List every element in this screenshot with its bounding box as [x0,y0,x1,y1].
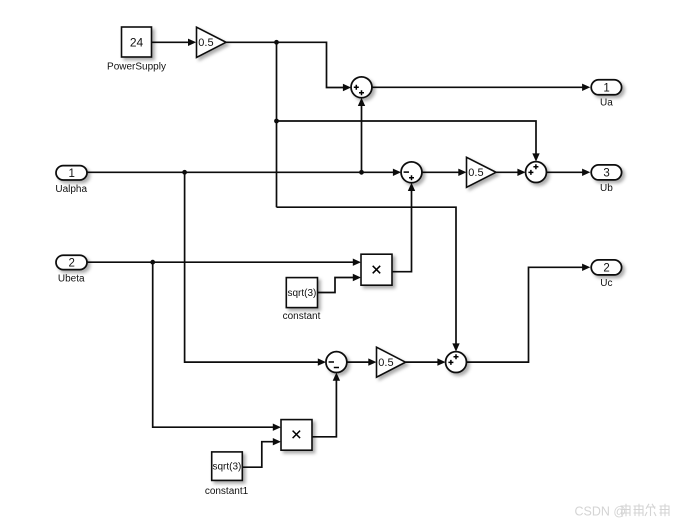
sum block Sum2 [401,162,422,183]
Sum5 minus bottom [334,367,339,369]
junction dot Ualpha x184 [182,170,187,175]
svg-text:Ualpha: Ualpha [55,184,87,195]
constant block PowerSupply [122,27,152,57]
svg-text:sqrt(3): sqrt(3) [212,462,241,473]
Product2 cross symbol [293,431,301,439]
gain block Gain2 0.5 [467,157,497,187]
svg-text:2: 2 [603,263,609,275]
wire Vdc branch to Sum3 top [277,121,537,154]
gain block Gain3 0.5 [377,347,406,377]
constant block sqrt(3) constant1 [212,452,243,481]
gain block Gain1 0.5 [197,27,227,57]
arrowhead into Gain1 [188,39,196,46]
junction dot Ualpha x361 [359,170,364,175]
arrowhead into Sum1 bottom [358,98,365,106]
wire constant1 sqrt(3) to Product2 input 2 [241,442,273,468]
arrowhead into Ub port [582,169,590,176]
arrowhead into Product1 input 2 [353,274,361,281]
Sum1 plus left [354,85,359,90]
wire Gain1 output to Sum1 left input [226,42,344,87]
arrowhead into Product2 input 2 [273,438,281,445]
junction dot Ubeta x152 [150,260,155,265]
arrowhead into Sum2 bottom [408,183,415,191]
wire Ubeta to Product1 input 1 [87,261,353,263]
arrowhead into Sum5 bottom [333,373,340,381]
Sum5 minus left [329,361,334,363]
Sum4 plus top [454,354,459,359]
svg-text:24: 24 [130,35,144,49]
arrowhead into Uc port [582,264,590,271]
arrowhead into Product1 input 1 [353,259,361,266]
arrowhead into Product2 input 1 [273,424,281,431]
svg-text:Uc: Uc [600,278,612,289]
wire Sum4 output to Uc port [467,267,583,362]
arrowhead into Sum3 top [532,153,539,161]
wire Sum2 output to Gain2 [422,171,459,173]
Sum3 plus top [533,164,538,169]
wire Ualpha branch up to Sum1 bottom [361,106,363,173]
wire Sum1 output to Ua port [372,86,583,88]
svg-text:1: 1 [603,83,609,95]
wire Ualpha to Sum2 left input [87,171,393,173]
arrowhead into Gain3 [368,358,376,365]
arrowhead into Sum1 left [343,84,351,91]
wire Product2 output to Sum5 bottom [312,380,336,437]
svg-text:sqrt(3): sqrt(3) [287,288,316,299]
wire Ualpha branch down to Sum5 left input [185,172,319,362]
svg-text:3: 3 [603,168,609,180]
junction dot Vdc at gain output [274,40,279,45]
arrowhead into Ua port [582,84,590,91]
arrowhead into Sum4 left [437,358,445,365]
sum signs [293,85,539,438]
sum block Sum3 [526,162,547,183]
wire Sum5 output to Gain3 [347,361,369,363]
wire Gain2 output to Sum3 left input [496,171,518,173]
arrowhead into Sum5 left [318,358,326,365]
svg-text:constant: constant [283,311,321,322]
svg-text:Ua: Ua [600,98,613,109]
Sum1 plus bottom [359,90,364,95]
constant block sqrt(3) [286,278,317,308]
svg-text:1: 1 [68,168,74,180]
wire Ubeta branch down to Product2 input 1 [153,262,274,427]
arrowhead into Sum4 top [452,343,459,351]
arrowhead into Gain2 [458,169,466,176]
svg-text:2: 2 [68,258,74,270]
wire Gain3 output to Sum4 left input [406,361,438,363]
block value texts [68,35,609,274]
sum block Sum4 [446,352,467,373]
outport Ub [591,165,621,180]
Sum2 minus left [404,171,409,173]
svg-text:constant1: constant1 [205,486,249,497]
arrowhead into Sum3 left [517,169,525,176]
arrowhead into Sum2 left [393,169,401,176]
inport Ualpha [56,166,87,180]
wire Vdc vertical trunk [276,42,278,207]
sum block Sum1 [351,77,372,98]
outport Uc [591,260,621,275]
product block Product1 [361,254,392,285]
wire Product1 output to Sum2 bottom [392,191,412,272]
sum block Sum5 [326,352,347,373]
inport Ubeta [56,255,87,269]
svg-text:CSDN @: CSDN @ [575,505,627,519]
svg-text:0.5: 0.5 [468,167,483,179]
Product1 cross symbol [373,266,381,274]
product block Product2 [281,420,312,451]
wire constant sqrt(3) to Product1 input 2 [318,278,354,293]
svg-text:0.5: 0.5 [378,357,393,369]
Sum4 plus left [448,360,453,365]
svg-text:Ub: Ub [600,183,613,194]
watermark CJK glyph blocks [621,504,670,516]
junction dot Vdc branch y121 [274,119,279,124]
watermark CSDN [575,504,670,519]
svg-text:PowerSupply: PowerSupply [107,61,166,72]
outport Ua [591,80,621,95]
wire Sum3 output to Ub port [547,171,583,173]
wire PowerSupply to Gain1 [152,41,189,43]
Sum3 plus left [528,170,533,175]
svg-text:Ubeta: Ubeta [58,274,85,285]
wire Vdc branch to Sum4 top [277,207,457,344]
Sum2 plus bottom [409,175,414,180]
svg-text:0.5: 0.5 [198,37,213,49]
